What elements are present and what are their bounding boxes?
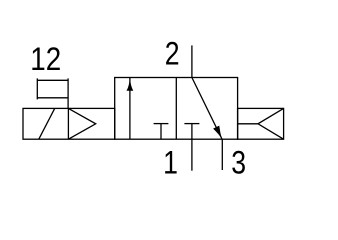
svg-text:2: 2 xyxy=(165,36,180,72)
svg-text:12: 12 xyxy=(30,42,61,77)
valve body divider xyxy=(175,78,177,140)
svg-text:3: 3 xyxy=(231,145,246,181)
pilot connection bracket 12 xyxy=(37,78,68,108)
port 2 line xyxy=(191,45,193,77)
solenoid coil diagonal xyxy=(39,108,55,139)
label 1 xyxy=(163,145,178,181)
pilot amplifier triangle xyxy=(68,108,95,139)
label 2 xyxy=(165,36,180,72)
flow arrow diagonal 2 to 3 (right cell) xyxy=(192,78,222,139)
solenoid block divider xyxy=(67,108,69,139)
spring symbol xyxy=(238,108,284,139)
blocked port T (left cell) xyxy=(154,124,169,140)
valve body rectangle xyxy=(115,78,238,140)
flow arrow (left cell, up) xyxy=(127,78,134,140)
label 3 xyxy=(231,145,246,181)
port 1 line xyxy=(191,139,193,171)
blocked port T (right cell) xyxy=(184,124,199,140)
label 12 (pilot port) xyxy=(30,42,61,77)
solenoid block rectangle xyxy=(23,108,115,139)
port 3 line xyxy=(221,139,223,170)
svg-text:1: 1 xyxy=(163,145,178,181)
spring return block rectangle xyxy=(238,108,284,139)
